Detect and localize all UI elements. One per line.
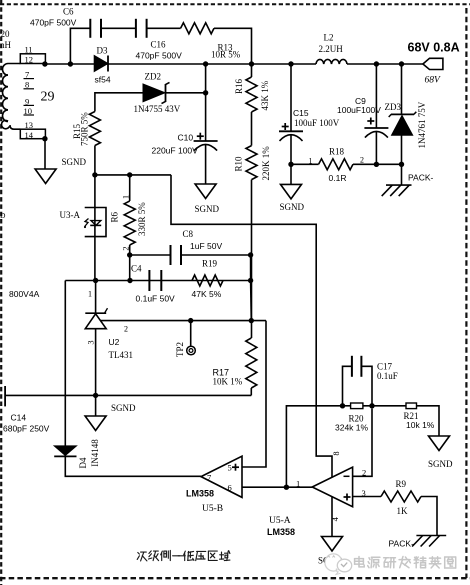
wire xyxy=(5,394,251,396)
pin 8 xyxy=(24,80,35,90)
svg-text:10K 1%: 10K 1% xyxy=(213,377,243,387)
wire xyxy=(64,281,66,446)
svg-text:11: 11 xyxy=(25,45,33,55)
connector 68V output xyxy=(423,58,443,69)
svg-text:C10: C10 xyxy=(178,132,194,142)
svg-text:1: 1 xyxy=(88,290,92,299)
svg-text:43K 1%: 43K 1% xyxy=(260,80,270,110)
wire xyxy=(250,255,252,281)
svg-text:0.1uF 50V: 0.1uF 50V xyxy=(136,294,176,304)
resistor R18 xyxy=(319,159,353,170)
wire xyxy=(401,135,403,164)
svg-text:10: 10 xyxy=(24,106,33,116)
wire xyxy=(421,497,437,536)
zener ZD3 xyxy=(389,112,417,136)
svg-text:800V4A: 800V4A xyxy=(9,289,40,299)
wire xyxy=(353,163,402,165)
capacitor C9 xyxy=(364,127,388,129)
wire xyxy=(95,281,97,314)
svg-text:PACK-: PACK- xyxy=(408,173,434,183)
svg-text:SGND: SGND xyxy=(195,204,220,214)
svg-text:2.2UH: 2.2UH xyxy=(319,44,344,54)
resistor R15 xyxy=(89,112,100,146)
svg-text:ZD3: ZD3 xyxy=(385,102,402,112)
ground SGND xyxy=(195,184,216,199)
capacitor C4 xyxy=(148,270,150,291)
resistor R9 xyxy=(381,491,421,502)
wire xyxy=(250,281,253,321)
wire xyxy=(171,175,332,477)
diode D3 xyxy=(94,56,108,72)
node junction xyxy=(288,162,293,167)
svg-text:R16: R16 xyxy=(234,78,244,94)
svg-text:68V: 68V xyxy=(425,75,442,85)
op-amp U5-B LM358 xyxy=(201,456,242,497)
svg-text:2: 2 xyxy=(124,325,128,334)
svg-text:D4: D4 xyxy=(78,457,88,468)
ground SGND xyxy=(281,184,302,199)
wire xyxy=(45,63,316,65)
svg-text:1: 1 xyxy=(296,479,300,489)
wire xyxy=(251,180,253,338)
resistor R13 xyxy=(181,23,214,34)
capacitor C10 xyxy=(194,140,218,142)
svg-text:750R 5%: 750R 5% xyxy=(80,112,90,146)
pin 10 xyxy=(24,106,35,116)
resistor R6 xyxy=(124,201,135,245)
wire xyxy=(401,164,403,185)
wire xyxy=(129,255,131,281)
wire xyxy=(291,163,319,165)
node junction xyxy=(68,61,73,66)
svg-text:SGND: SGND xyxy=(62,157,87,167)
svg-text:1uF 50V: 1uF 50V xyxy=(190,241,222,251)
label 次级侧--低压区域 xyxy=(137,551,230,561)
svg-text:R6: R6 xyxy=(110,211,120,222)
svg-text:324k 1%: 324k 1% xyxy=(335,423,369,433)
wire xyxy=(147,27,181,29)
svg-text:U3-A: U3-A xyxy=(60,210,81,220)
svg-text:29: 29 xyxy=(41,90,55,105)
node junction xyxy=(203,90,208,95)
svg-text:13: 13 xyxy=(25,120,34,130)
wire xyxy=(242,321,266,467)
wire xyxy=(181,254,251,256)
resistor R21 xyxy=(406,403,417,409)
svg-text:D: D xyxy=(0,211,6,220)
svg-text:C8: C8 xyxy=(183,229,194,239)
svg-text:2: 2 xyxy=(360,155,364,164)
wire xyxy=(94,237,96,281)
ground PACK- xyxy=(382,185,412,196)
transformer T1 winding xyxy=(1,54,45,139)
capacitor C17 xyxy=(351,356,353,377)
svg-text:10R 5%: 10R 5% xyxy=(211,50,241,60)
svg-text:C14: C14 xyxy=(11,413,27,423)
wire xyxy=(205,64,207,141)
resistor R19 xyxy=(192,275,223,286)
svg-text:330R 5%: 330R 5% xyxy=(137,202,147,236)
watermark logo xyxy=(325,554,352,575)
resistor R16 xyxy=(246,77,257,112)
wire xyxy=(44,139,46,169)
wire xyxy=(214,28,252,64)
wire xyxy=(290,164,292,184)
diode D4 xyxy=(54,446,76,457)
node junction xyxy=(399,162,404,167)
svg-text:R9: R9 xyxy=(396,479,407,489)
wire xyxy=(166,92,206,94)
wire xyxy=(95,174,171,176)
regulator U2 TL431 xyxy=(85,308,107,329)
pin 9 xyxy=(24,96,35,106)
wire xyxy=(353,496,381,498)
svg-text:8: 8 xyxy=(25,80,29,90)
ground SGND xyxy=(429,436,450,451)
wire xyxy=(250,388,252,395)
svg-text:470pF 500V: 470pF 500V xyxy=(30,17,77,27)
svg-text:68V 0.8A: 68V 0.8A xyxy=(408,41,460,55)
zener ZD2 xyxy=(143,82,170,103)
node junction xyxy=(127,172,132,177)
svg-text:1N4755 43V: 1N4755 43V xyxy=(134,104,181,114)
wire xyxy=(70,28,90,64)
svg-text:L2: L2 xyxy=(324,32,334,42)
node junction xyxy=(42,136,47,141)
svg-text:C15: C15 xyxy=(293,108,309,118)
wire xyxy=(417,406,440,436)
wire xyxy=(129,245,131,255)
wire xyxy=(65,456,201,476)
svg-text:R19: R19 xyxy=(202,259,218,269)
wire xyxy=(95,93,143,112)
node junction xyxy=(340,403,345,408)
op-amp U5-A LM358 xyxy=(312,467,352,507)
svg-text:10k 1%: 10k 1% xyxy=(406,420,435,430)
ground SGND xyxy=(322,537,343,552)
svg-text:U2: U2 xyxy=(109,337,120,347)
wire xyxy=(286,406,342,487)
svg-text:U5-A: U5-A xyxy=(269,516,291,526)
svg-text:100uF 100V: 100uF 100V xyxy=(294,118,340,128)
svg-text:6: 6 xyxy=(228,483,232,493)
wire xyxy=(375,132,377,165)
svg-text:TL431: TL431 xyxy=(109,350,134,360)
node junction xyxy=(374,162,379,167)
wire xyxy=(331,497,333,537)
node junction xyxy=(93,278,98,283)
svg-text:TP2: TP2 xyxy=(175,342,185,357)
svg-text:SGND: SGND xyxy=(280,202,305,212)
label 920 nH xyxy=(0,29,12,50)
svg-text:LM358: LM358 xyxy=(267,527,295,537)
node junction xyxy=(288,61,293,66)
node junction xyxy=(248,278,253,283)
svg-text:ZD2: ZD2 xyxy=(145,71,162,81)
ground SGND xyxy=(35,169,56,184)
svg-text:SGND: SGND xyxy=(428,459,453,469)
wire xyxy=(290,64,292,132)
svg-text:1K: 1K xyxy=(397,506,409,516)
node junction xyxy=(127,252,132,257)
wire xyxy=(94,175,96,237)
capacitor C6 xyxy=(89,19,91,38)
wire xyxy=(190,321,192,347)
watermark 电源研发精英圈 xyxy=(355,557,456,569)
wire xyxy=(205,145,207,184)
node junction xyxy=(92,172,97,177)
svg-text:5: 5 xyxy=(228,462,232,472)
wire xyxy=(129,175,131,201)
svg-text:R18: R18 xyxy=(329,147,345,157)
svg-text:R10: R10 xyxy=(234,156,244,172)
svg-text:U5-B: U5-B xyxy=(202,504,223,514)
node junction xyxy=(248,252,253,257)
svg-text:470pF 500V: 470pF 500V xyxy=(136,50,183,60)
wire xyxy=(375,64,377,128)
wire xyxy=(101,27,136,29)
node junction xyxy=(399,61,404,66)
svg-text:0.1R: 0.1R xyxy=(329,173,347,183)
svg-text:680pF 250V: 680pF 250V xyxy=(3,424,50,434)
svg-text:IN4148: IN4148 xyxy=(90,439,100,467)
testpoint TP2 xyxy=(187,346,196,355)
svg-text:1: 1 xyxy=(309,156,313,165)
capacitor C15 xyxy=(279,130,303,132)
resistor R20 xyxy=(351,403,363,409)
svg-text:C4: C4 xyxy=(131,264,142,274)
wire xyxy=(401,64,403,114)
wire xyxy=(65,280,250,282)
svg-text:0.1uF: 0.1uF xyxy=(377,371,398,381)
svg-text:C16: C16 xyxy=(151,39,167,49)
svg-text:14: 14 xyxy=(25,130,34,140)
node junction xyxy=(188,318,193,323)
wire xyxy=(251,112,253,146)
wire xyxy=(100,320,266,322)
svg-text:8: 8 xyxy=(331,451,341,455)
svg-text:C17: C17 xyxy=(377,361,393,371)
node junction xyxy=(93,393,98,398)
node junction xyxy=(284,485,289,490)
svg-text:12: 12 xyxy=(25,54,34,64)
resistor R17 xyxy=(246,338,257,388)
svg-text:100uF100V: 100uF100V xyxy=(337,105,381,115)
optocoupler U3-A xyxy=(84,208,106,237)
wire xyxy=(343,366,352,406)
node junction xyxy=(42,61,47,66)
node junction xyxy=(369,403,374,408)
capacitor C14 xyxy=(4,386,6,406)
svg-text:1N4761 75V: 1N4761 75V xyxy=(417,101,427,148)
svg-text:2: 2 xyxy=(120,246,130,250)
node junction xyxy=(127,278,132,283)
svg-text:C6: C6 xyxy=(63,7,74,17)
node junction xyxy=(374,61,379,66)
svg-text:nH: nH xyxy=(0,40,12,50)
wire xyxy=(290,135,292,164)
svg-text:sf54: sf54 xyxy=(95,75,111,85)
svg-text:220uF 100V: 220uF 100V xyxy=(152,145,199,155)
wire xyxy=(353,409,372,477)
pin 7 xyxy=(24,70,35,80)
node junction xyxy=(249,61,254,66)
wire xyxy=(363,405,406,407)
capacitor C16 xyxy=(135,19,137,38)
resistor R10 xyxy=(246,146,257,180)
wire xyxy=(94,146,96,175)
ground SGND xyxy=(85,416,106,431)
wire xyxy=(347,63,423,65)
svg-text:3: 3 xyxy=(86,340,96,344)
ground PACK- xyxy=(412,536,446,547)
wire xyxy=(361,366,372,406)
svg-text:47K 5%: 47K 5% xyxy=(192,289,222,299)
wire xyxy=(95,329,97,416)
node junction xyxy=(249,318,254,323)
wire xyxy=(343,405,351,407)
svg-text:7: 7 xyxy=(207,472,211,482)
svg-text:1: 1 xyxy=(120,195,130,199)
capacitor C8 xyxy=(170,245,172,265)
wire xyxy=(242,486,312,488)
wire xyxy=(130,254,171,256)
svg-text:220K 1%: 220K 1% xyxy=(261,146,271,181)
svg-text:D3: D3 xyxy=(97,46,108,56)
wire xyxy=(251,64,253,77)
svg-text:LM358: LM358 xyxy=(186,489,214,499)
svg-text:PACK-: PACK- xyxy=(389,539,415,549)
inductor L2 xyxy=(316,59,347,64)
svg-text:920: 920 xyxy=(0,29,10,39)
svg-text:SGND: SGND xyxy=(111,403,136,413)
node junction xyxy=(203,61,208,66)
